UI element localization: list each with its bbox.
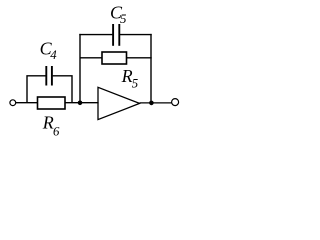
node B junction dot	[149, 101, 154, 106]
output terminal	[172, 99, 179, 106]
capacitor C4 plates	[45, 66, 47, 86]
wire input to R6	[16, 102, 38, 104]
capacitor C5 plates	[112, 24, 114, 46]
resistor R5	[102, 52, 127, 64]
node A junction dot	[78, 101, 83, 106]
wire R5 to node B	[127, 57, 152, 59]
wire feedback network down to node B	[150, 34, 152, 103]
svg-text:6: 6	[53, 125, 60, 139]
wire op-amp output to output terminal	[140, 102, 172, 104]
svg-text:5: 5	[132, 76, 139, 90]
wire node A up to feedback network	[79, 34, 81, 103]
input terminal	[10, 100, 16, 106]
op-amp U1	[98, 87, 140, 119]
capacitor C4 left lead (vertical + horizontal)	[27, 76, 46, 103]
svg-text:5: 5	[120, 12, 127, 26]
wire node A to R5	[80, 57, 102, 59]
svg-text:R: R	[42, 112, 54, 132]
svg-text:4: 4	[50, 48, 57, 62]
resistor R6	[38, 97, 66, 109]
capacitor C5 left lead	[79, 34, 112, 36]
capacitor C5 right lead	[120, 34, 152, 36]
wire R6 to op-amp	[65, 102, 99, 104]
capacitor C4 right lead (horizontal + vertical)	[53, 76, 72, 103]
svg-text:R: R	[121, 66, 133, 86]
